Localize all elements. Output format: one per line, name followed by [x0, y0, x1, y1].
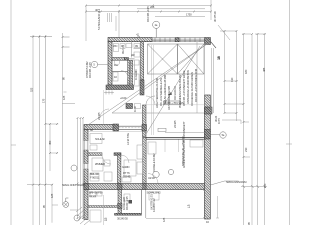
svg-text:02 KIND 13.6 M2 OK FFB +0.15 P: 02 KIND 13.6 M2 OK FFB +0.15 PARKETT	[182, 121, 186, 168]
ticks lower-left dims	[77, 117, 85, 219]
svg-text:24 365: 24 365	[97, 112, 101, 120]
grid bubble left	[91, 61, 97, 67]
bottom right dimension line	[241, 186, 267, 188]
svg-text:UK SPARREN +2.485: UK SPARREN +2.485	[167, 85, 171, 110]
svg-text:ZIMMER: ZIMMER	[95, 162, 105, 166]
interior wall horizontal upper block (below top room)	[112, 58, 125, 61]
svg-text:485: 485	[262, 67, 266, 72]
svg-text:525: 525	[30, 87, 34, 92]
svg-text:L3: L3	[187, 204, 191, 208]
mid-right room fittings	[164, 140, 166, 153]
svg-text:03 FLUR 6.2: 03 FLUR 6.2	[173, 86, 177, 100]
big room rotated notes	[155, 77, 159, 108]
slope hatch marks bottom-left	[76, 207, 90, 225]
top dimension verticals	[85, 6, 87, 42]
svg-text:AR: AR	[131, 53, 135, 57]
rotated text columns upper-left outside	[97, 8, 101, 30]
svg-text:SMLG CNNT RGHN: SMLG CNNT RGHN	[62, 183, 85, 187]
svg-text:15: 15	[104, 217, 108, 221]
svg-text:30 240 30: 30 240 30	[117, 217, 128, 221]
svg-text:210: 210	[244, 147, 248, 152]
interior partition horizontal lower-left	[88, 153, 102, 156]
svg-text:L4 16 STG: L4 16 STG	[126, 133, 130, 145]
right exterior wall lower block	[205, 95, 211, 219]
svg-text:UK STB +2.51: UK STB +2.51	[150, 194, 154, 210]
faint line under label box	[146, 104, 204, 106]
grid bubble top with leader	[63, 21, 226, 221]
ticks on left verticals top	[32, 36, 64, 48]
svg-text:125: 125	[62, 95, 66, 100]
right dimension connectors	[220, 31, 266, 113]
diagonal sight line 3	[143, 46, 200, 139]
room 16 right edge	[141, 190, 143, 214]
lintel over mid opening	[119, 126, 143, 129]
door arc lower-left of big room	[100, 109, 109, 118]
svg-text:SMCG GNN RGM: SMCG GNN RGM	[226, 180, 247, 184]
svg-text:F 90/211: F 90/211	[90, 175, 100, 179]
partial circle left edge	[71, 165, 77, 171]
connecting wall to mid block	[143, 105, 147, 137]
svg-text:OK RF -2.35: OK RF -2.35	[125, 196, 129, 210]
svg-text:18: 18	[168, 92, 172, 96]
window opening in left wall 2	[84, 164, 89, 170]
dim line continuing to lower block	[103, 90, 105, 125]
benchmark circle bottom left	[63, 202, 69, 208]
svg-text:UZ 24: UZ 24	[89, 194, 96, 198]
rotated dimension texts left	[41, 98, 45, 103]
top wall window band	[152, 38, 205, 42]
svg-text:125: 125	[50, 193, 54, 198]
window opening in left wall 1	[84, 141, 89, 151]
leader bottom band	[211, 181, 239, 185]
left dimension ticks top	[30, 37, 70, 47]
right wall block at mid-wall junction	[205, 130, 211, 140]
partition wall in left lower room	[88, 206, 118, 208]
top dimension horizontals	[86, 5, 211, 7]
left exterior wall lower block	[84, 130, 88, 220]
interior wall vertical B upper block	[141, 42, 144, 80]
interior wall vertical A upper block (double strip)	[128, 60, 130, 85]
small line bottom-left outside	[70, 209, 78, 211]
ticks on right verticals top	[224, 30, 266, 35]
small label box in big room	[164, 101, 181, 105]
svg-text:5.0 SCHLAFZI 14.3: 5.0 SCHLAFZI 14.3	[97, 8, 101, 30]
room L3 left edge	[145, 190, 147, 219]
svg-text:COD + 76 R 14.5: COD + 76 R 14.5	[165, 101, 184, 105]
left dimension verticals	[32, 35, 34, 225]
svg-text:OK FFB +0.15: OK FFB +0.15	[146, 6, 150, 22]
top exterior wall (solid part)	[108, 38, 152, 42]
kitchen pillar block	[126, 104, 133, 109]
roof void box 1 with cross	[148, 44, 178, 74]
svg-text:30 175 30: 30 175 30	[213, 11, 217, 22]
terrace bottom line	[112, 112, 204, 114]
dim chain under upper block	[104, 91, 114, 95]
right wall top block	[205, 107, 213, 114]
interior thin partition upper block	[112, 71, 128, 73]
left bottom dimension line	[27, 185, 58, 223]
mid-left exterior wall band	[84, 125, 114, 130]
left page border line	[10, 0, 12, 225]
terrace right edge double line	[212, 48, 214, 113]
interior wall vertical lower-left	[118, 155, 121, 184]
left mid dimension marks	[11, 124, 58, 171]
right side rotated dims	[244, 69, 248, 74]
small label box above mid wall	[158, 128, 166, 131]
svg-text:175: 175	[41, 98, 45, 103]
top-right corner block	[205, 38, 211, 45]
ticks on top dim line 2	[85, 11, 212, 13]
roof void box 2 with cross	[178, 44, 205, 74]
ticks right connectors	[224, 80, 245, 158]
door arc upper connecting	[146, 96, 155, 105]
diagonal sight line 1	[85, 43, 209, 128]
svg-text:GARD: GARD	[122, 165, 129, 169]
svg-text:OK FFB +0.15: OK FFB +0.15	[88, 62, 92, 78]
wall below band between rooms 15/16	[118, 190, 122, 215]
left exterior wall upper block	[108, 42, 112, 85]
small circles lower mid	[153, 171, 159, 177]
ticks on top dim line 1	[85, 5, 212, 7]
bottom rooms rotated	[104, 217, 108, 221]
door arcs	[121, 155, 129, 163]
bubble2 leader	[98, 64, 108, 66]
mid-left connector	[62, 92, 75, 104]
svg-text:DU: DU	[114, 63, 118, 67]
svg-text:DG 45: DG 45	[123, 174, 131, 178]
diagonal sight line 2	[112, 43, 209, 114]
interior wall vertical mid (stair wall)	[143, 137, 146, 184]
right dimension verticals	[224, 31, 226, 113]
svg-text:130: 130	[230, 77, 234, 82]
bottom corridor wall band	[84, 184, 207, 190]
svg-text:SCHLAF: SCHLAF	[95, 137, 105, 141]
svg-text:450: 450	[48, 140, 52, 145]
svg-text:01 DIELE 8.4 M2: 01 DIELE 8.4 M2	[152, 153, 156, 172]
svg-text:1750: 1750	[186, 13, 192, 17]
svg-text:150: 150	[263, 183, 267, 188]
svg-text:OK FFB +0.15 ESTRICH 6CM: OK FFB +0.15 ESTRICH 6CM	[194, 68, 198, 102]
grid bubble right 15	[220, 132, 226, 138]
svg-text:208: 208	[150, 5, 155, 9]
svg-text:180: 180	[244, 69, 248, 74]
room line upper block	[132, 42, 141, 85]
svg-text:18: 18	[217, 56, 221, 60]
room above band right	[124, 160, 136, 176]
lower-left dimension verticals	[77, 118, 79, 219]
leader to bubble 15	[211, 134, 220, 136]
bottom wall of room 16	[115, 213, 142, 215]
bedroom furniture lower-left	[90, 134, 102, 144]
diag leader top right	[218, 25, 230, 40]
terrace inner edge line	[204, 44, 206, 107]
mid column rotated	[182, 121, 186, 168]
svg-text:11 GARD: 11 GARD	[134, 69, 138, 80]
svg-text:125: 125	[162, 217, 166, 222]
ticks on left bottom dim	[32, 184, 53, 186]
bottom wall upper block	[106, 85, 134, 90]
svg-text:09 2.1: 09 2.1	[121, 47, 125, 54]
svg-text:+0.00: +0.00	[120, 96, 127, 100]
bathroom fixtures upper block	[114, 44, 119, 52]
svg-text:UZ 30: UZ 30	[148, 176, 155, 180]
kitchen block mid	[135, 104, 141, 109]
svg-text:24 365: 24 365	[173, 120, 177, 128]
inner room line big room	[165, 42, 205, 133]
svg-text:117 5: 117 5	[217, 118, 221, 124]
svg-text:SCHALUNG: SCHALUNG	[147, 191, 161, 195]
svg-text:WC: WC	[113, 44, 117, 48]
mid horizontal wall (double line)	[146, 137, 205, 139]
inner face line below mid band	[88, 131, 142, 133]
dark junction blocks in bottom band	[118, 184, 123, 190]
right page border line	[289, 0, 291, 225]
svg-text:11 10: 11 10	[133, 106, 137, 112]
rooms below band	[103, 195, 105, 225]
ticks mid-left	[44, 123, 58, 154]
